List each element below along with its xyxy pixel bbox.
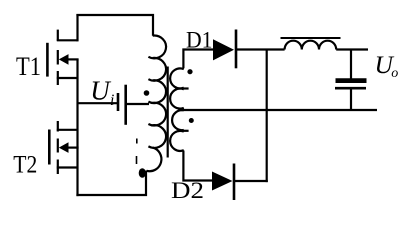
svg-text:T2: T2 [13, 152, 37, 179]
svg-text:D2: D2 [171, 178, 204, 203]
svg-text:T1: T1 [16, 52, 41, 81]
svg-text:o: o [391, 66, 398, 81]
svg-text:U: U [90, 76, 111, 106]
svg-text:D1: D1 [186, 27, 213, 52]
svg-text:i: i [110, 92, 114, 109]
